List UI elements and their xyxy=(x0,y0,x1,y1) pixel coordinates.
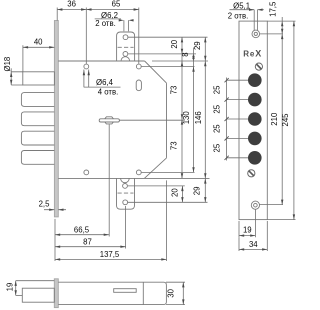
svg-text:2 отв.: 2 отв. xyxy=(228,11,249,20)
case hole top-right (Ø6.4) xyxy=(136,64,141,69)
bottom plate hole upper xyxy=(123,184,128,189)
svg-text:34: 34 xyxy=(249,240,258,249)
ext strip bottom xyxy=(54,219,56,261)
faceplate front view xyxy=(239,21,267,220)
svg-text:29: 29 xyxy=(192,187,201,196)
deadbolt B1 (round, Ø18) xyxy=(23,72,55,85)
bottom plate dome arc xyxy=(121,178,130,182)
svg-text:137,5: 137,5 xyxy=(100,250,120,259)
dim 87 xyxy=(55,246,126,248)
ext case hole top leader xyxy=(142,66,195,68)
bolt hole 3 xyxy=(248,112,262,126)
svg-text:4 отв.: 4 отв. xyxy=(98,87,119,96)
ext plate lower hole leader xyxy=(128,53,196,55)
bolt B3 xyxy=(21,112,54,126)
screw hole bottom (Ø5,1) xyxy=(251,201,259,209)
ext case right wall bottom xyxy=(166,180,168,261)
svg-text:25: 25 xyxy=(213,143,222,152)
svg-text:2 отв.: 2 отв. xyxy=(95,19,116,28)
bolt hole 5 xyxy=(248,151,262,165)
dim 137,5 xyxy=(55,258,167,260)
svg-text:19: 19 xyxy=(5,283,14,292)
svg-text:245: 245 xyxy=(281,113,290,127)
top plate hole (Ø6.2) upper xyxy=(123,35,128,40)
bottom mounting plate xyxy=(117,178,135,209)
screw head top xyxy=(255,63,262,70)
ext bottom plate hole xyxy=(125,206,127,249)
dim 30 (side) xyxy=(166,281,185,283)
ext plate top hole leader xyxy=(128,36,208,38)
dim 19 (side) xyxy=(16,280,55,282)
svg-text:2,5: 2,5 xyxy=(39,199,51,208)
top plate hole (Ø6.2) lower xyxy=(123,52,128,57)
svg-text:130: 130 xyxy=(182,111,191,125)
ext case hole bottom leader xyxy=(142,171,195,173)
svg-text:210: 210 xyxy=(270,112,279,126)
ext strip top xyxy=(56,8,58,21)
leader bottom screw hole xyxy=(259,204,283,206)
svg-text:30: 30 xyxy=(167,288,176,297)
svg-text:146: 146 xyxy=(194,111,203,124)
key symbol body xyxy=(99,119,119,122)
svg-text:Ø18: Ø18 xyxy=(3,57,12,72)
svg-text:36: 36 xyxy=(67,0,76,9)
dim line L1 (20 / 73 / 73) xyxy=(181,37,183,178)
svg-text:87: 87 xyxy=(83,237,92,246)
svg-text:73: 73 xyxy=(169,141,178,150)
case top edge xyxy=(58,60,144,62)
svg-text:19: 19 xyxy=(243,226,252,235)
bolt B4 xyxy=(21,131,54,145)
svg-text:73: 73 xyxy=(169,86,178,95)
ext hole top-right xyxy=(138,8,140,64)
bolt B5 xyxy=(21,151,54,165)
cylinder slot xyxy=(136,80,141,91)
case right wall xyxy=(166,83,168,158)
svg-text:Ø6,4: Ø6,4 xyxy=(96,78,114,87)
Ø6,2 arrows to plate hole xyxy=(124,20,128,31)
case hole top-left (Ø6.4) xyxy=(84,64,89,69)
dim 36/65 top line xyxy=(57,9,139,11)
case end cap line xyxy=(142,282,144,304)
key axis extension line xyxy=(119,119,185,121)
bolt B2 xyxy=(21,93,54,107)
svg-text:25: 25 xyxy=(213,104,222,113)
ext plate top edge xyxy=(267,20,295,22)
svg-text:65: 65 xyxy=(112,0,121,9)
case hole bottom-left (Ø6.4) xyxy=(84,170,89,175)
svg-text:20: 20 xyxy=(171,188,180,197)
svg-text:66,5: 66,5 xyxy=(74,225,90,234)
case hole bottom-right (Ø6.4) xyxy=(136,170,141,175)
handle slot xyxy=(114,289,137,293)
bolt side view xyxy=(22,288,54,302)
svg-text:25: 25 xyxy=(213,85,222,94)
key symbol boss xyxy=(105,117,114,124)
ext bottom plate hole upper leader xyxy=(128,185,185,187)
svg-text:29: 29 xyxy=(193,41,202,50)
faceplate strip side xyxy=(54,279,58,308)
case side view xyxy=(58,282,166,304)
svg-text:ReX: ReX xyxy=(243,48,262,58)
bottom plate dashed centerline xyxy=(118,192,134,194)
dim line L3 (29 / 146) xyxy=(204,37,206,202)
dim 19 (plate) xyxy=(238,221,240,237)
ext bottom plate hole lower leader xyxy=(128,201,208,203)
top mounting plate xyxy=(117,32,135,61)
faceplate edge strip xyxy=(54,21,58,217)
bolt hole 2 xyxy=(248,93,262,107)
top plate dashed centerline xyxy=(118,46,134,48)
svg-text:20: 20 xyxy=(170,39,179,48)
svg-text:8: 8 xyxy=(181,52,190,56)
svg-text:17,5: 17,5 xyxy=(269,1,278,17)
dim line 20 (bottom) xyxy=(181,186,183,202)
case bottom edge + extension xyxy=(58,177,209,179)
screw head bottom xyxy=(248,170,255,177)
bottom plate hole (lower, Ø6.2) xyxy=(123,200,128,205)
bolt hole 4 xyxy=(248,132,262,146)
screw hole top (Ø5,1) xyxy=(252,30,260,38)
dim 34 (plate) xyxy=(238,237,240,251)
dim line L2 (8 / 130) xyxy=(193,48,195,173)
case top-right diagonal xyxy=(145,61,167,83)
dim 25 chain xyxy=(227,80,248,158)
top plate dome arc xyxy=(121,57,130,61)
ext hole top-left xyxy=(85,8,87,64)
ext plate bottom edge xyxy=(267,219,295,221)
svg-text:40: 40 xyxy=(34,38,43,47)
svg-text:25: 25 xyxy=(213,124,222,133)
bolt hole 1 xyxy=(248,73,262,87)
dim 245 line xyxy=(293,21,295,220)
key center vertical extension xyxy=(108,124,110,236)
leader top screw hole xyxy=(260,33,283,35)
dim 66,5 xyxy=(55,234,109,236)
case top edge extension (right) xyxy=(152,60,208,62)
case bottom-right diagonal xyxy=(144,158,166,179)
